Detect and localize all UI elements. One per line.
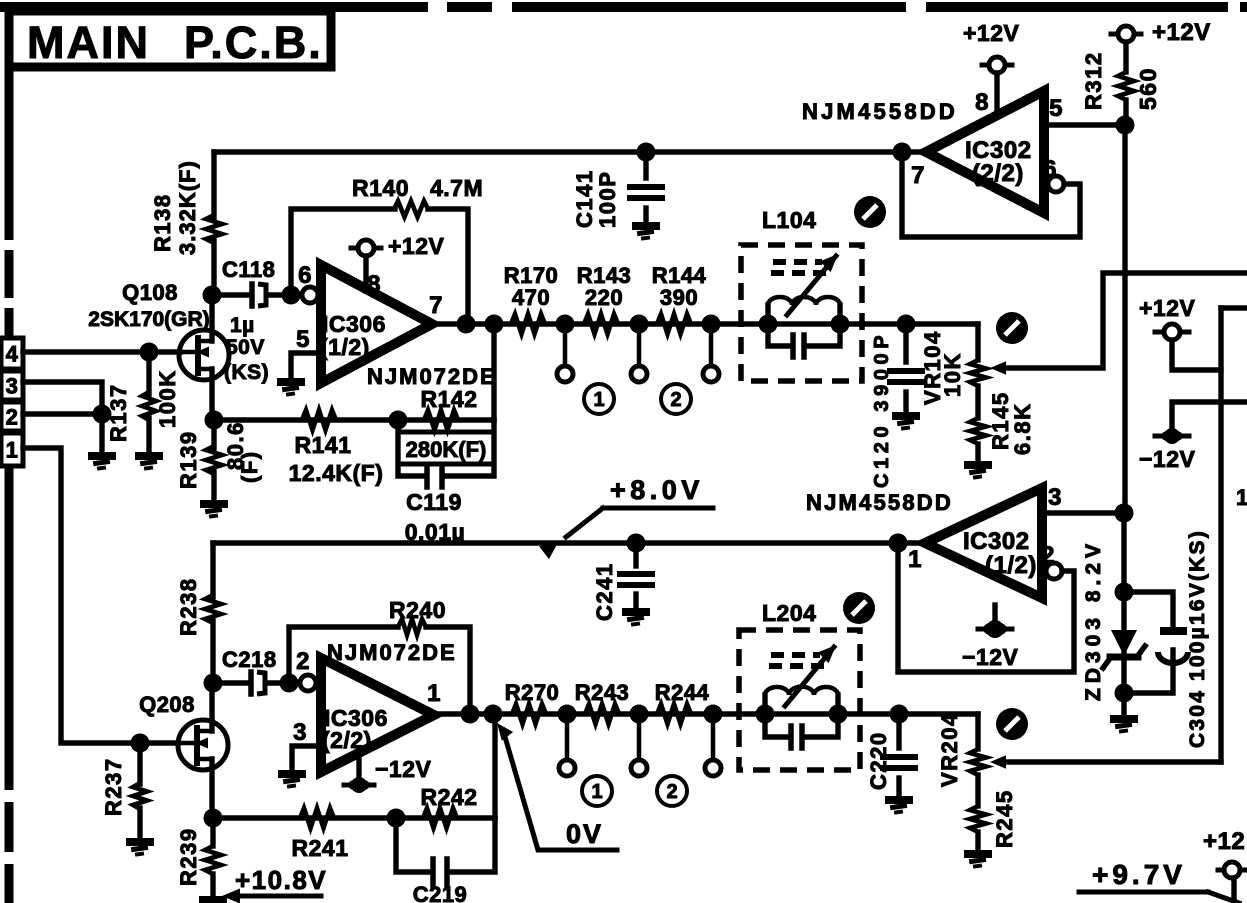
svg-text:R137: R137 <box>106 383 131 442</box>
svg-text:12.4K(F): 12.4K(F) <box>289 460 384 486</box>
svg-text:C120 3900P: C120 3900P <box>871 331 893 488</box>
svg-text:+12V: +12V <box>1152 19 1211 46</box>
svg-text:+8.0V: +8.0V <box>610 475 704 505</box>
svg-text:6.8K: 6.8K <box>1010 403 1035 455</box>
svg-text:10K: 10K <box>940 352 965 397</box>
svg-text:R244: R244 <box>655 680 710 705</box>
svg-text:7: 7 <box>911 162 925 189</box>
svg-text:R245: R245 <box>992 789 1017 848</box>
svg-text:+12V: +12V <box>963 20 1020 46</box>
svg-text:(KS): (KS) <box>224 361 269 384</box>
svg-text:R138: R138 <box>150 193 175 252</box>
svg-text:R239: R239 <box>176 827 201 886</box>
svg-text:1: 1 <box>593 389 604 411</box>
svg-text:(1/2): (1/2) <box>985 552 1037 579</box>
svg-text:+12: +12 <box>1203 828 1245 855</box>
svg-text:R141: R141 <box>295 432 352 458</box>
svg-text:R312: R312 <box>1081 51 1106 110</box>
svg-text:−12V: −12V <box>375 756 432 782</box>
svg-text:VR204: VR204 <box>937 712 962 787</box>
svg-text:R142: R142 <box>421 386 478 412</box>
svg-text:IC302: IC302 <box>963 528 1030 555</box>
svg-text:R238: R238 <box>176 577 201 636</box>
svg-text:R140: R140 <box>352 175 409 201</box>
svg-text:NJM4558DD: NJM4558DD <box>802 99 958 124</box>
svg-text:560: 560 <box>1135 67 1161 110</box>
svg-text:7: 7 <box>429 292 443 319</box>
svg-text:5: 5 <box>1049 95 1063 122</box>
svg-text:C118: C118 <box>222 257 275 282</box>
svg-text:2: 2 <box>296 648 310 675</box>
svg-text:1: 1 <box>591 781 602 803</box>
svg-text:+10.8V: +10.8V <box>235 865 327 895</box>
svg-text:(2/2): (2/2) <box>322 727 372 753</box>
svg-text:2: 2 <box>670 389 681 411</box>
svg-text:−12V: −12V <box>1139 446 1196 472</box>
svg-text:R241: R241 <box>292 835 349 861</box>
svg-text:C218: C218 <box>222 647 277 672</box>
svg-text:L104: L104 <box>762 207 816 233</box>
svg-text:1: 1 <box>427 680 441 707</box>
svg-text:3: 3 <box>293 719 307 746</box>
svg-text:NJM072DE: NJM072DE <box>327 640 457 665</box>
svg-text:ZD303 8.2V: ZD303 8.2V <box>1082 539 1105 701</box>
svg-text:6: 6 <box>298 262 312 289</box>
svg-text:390: 390 <box>660 285 698 310</box>
svg-text:2: 2 <box>1041 542 1055 569</box>
svg-text:100P: 100P <box>595 171 620 228</box>
svg-text:1µ: 1µ <box>230 314 255 337</box>
svg-text:Q108: Q108 <box>122 280 178 305</box>
svg-text:L204: L204 <box>762 600 816 626</box>
svg-text:(2/2): (2/2) <box>972 160 1024 187</box>
svg-text:C304 100µ16V(KS): C304 100µ16V(KS) <box>1186 529 1209 748</box>
svg-text:MAIN: MAIN <box>27 17 150 68</box>
svg-text:C220: C220 <box>866 731 891 790</box>
svg-text:C241: C241 <box>592 562 617 621</box>
svg-text:2: 2 <box>6 405 19 430</box>
svg-text:1: 1 <box>1236 485 1247 510</box>
svg-text:R139: R139 <box>176 430 201 489</box>
svg-text:Q208: Q208 <box>139 692 195 717</box>
svg-text:NJM072DE: NJM072DE <box>367 364 497 389</box>
svg-text:2SK170(GR): 2SK170(GR) <box>88 308 209 331</box>
svg-text:220: 220 <box>585 285 623 310</box>
svg-text:R242: R242 <box>421 784 478 810</box>
svg-text:R270: R270 <box>505 680 560 705</box>
svg-text:1: 1 <box>908 546 922 573</box>
svg-text:5: 5 <box>296 326 310 353</box>
svg-text:P.C.B.: P.C.B. <box>184 17 323 68</box>
svg-text:+12V: +12V <box>1139 295 1196 321</box>
svg-text:8: 8 <box>367 271 381 298</box>
svg-text:C219: C219 <box>413 882 468 903</box>
svg-text:C119: C119 <box>406 489 462 515</box>
svg-text:3.32K(F): 3.32K(F) <box>175 160 200 255</box>
svg-text:8: 8 <box>975 89 989 116</box>
svg-text:280K(F): 280K(F) <box>406 437 487 462</box>
svg-text:R240: R240 <box>389 597 446 623</box>
svg-text:NJM4558DD: NJM4558DD <box>806 490 953 515</box>
svg-text:50V: 50V <box>226 336 265 359</box>
svg-text:4: 4 <box>6 342 19 367</box>
svg-text:−12V: −12V <box>962 644 1019 670</box>
svg-text:0V: 0V <box>566 819 603 849</box>
svg-text:C141: C141 <box>572 169 597 228</box>
svg-text:R237: R237 <box>101 757 126 816</box>
svg-text:+9.7V: +9.7V <box>1092 859 1186 890</box>
svg-text:(1/2): (1/2) <box>320 334 370 360</box>
svg-text:470: 470 <box>512 285 550 310</box>
svg-text:2: 2 <box>666 781 677 803</box>
svg-text:3: 3 <box>1048 484 1062 511</box>
svg-text:4.7M: 4.7M <box>430 175 483 201</box>
svg-text:(F): (F) <box>237 450 262 483</box>
svg-text:1: 1 <box>6 438 19 463</box>
svg-text:+12V: +12V <box>388 233 445 259</box>
svg-text:R243: R243 <box>575 680 630 705</box>
svg-text:100K: 100K <box>155 369 180 428</box>
svg-text:6: 6 <box>1043 156 1057 183</box>
svg-text:3: 3 <box>6 374 19 399</box>
